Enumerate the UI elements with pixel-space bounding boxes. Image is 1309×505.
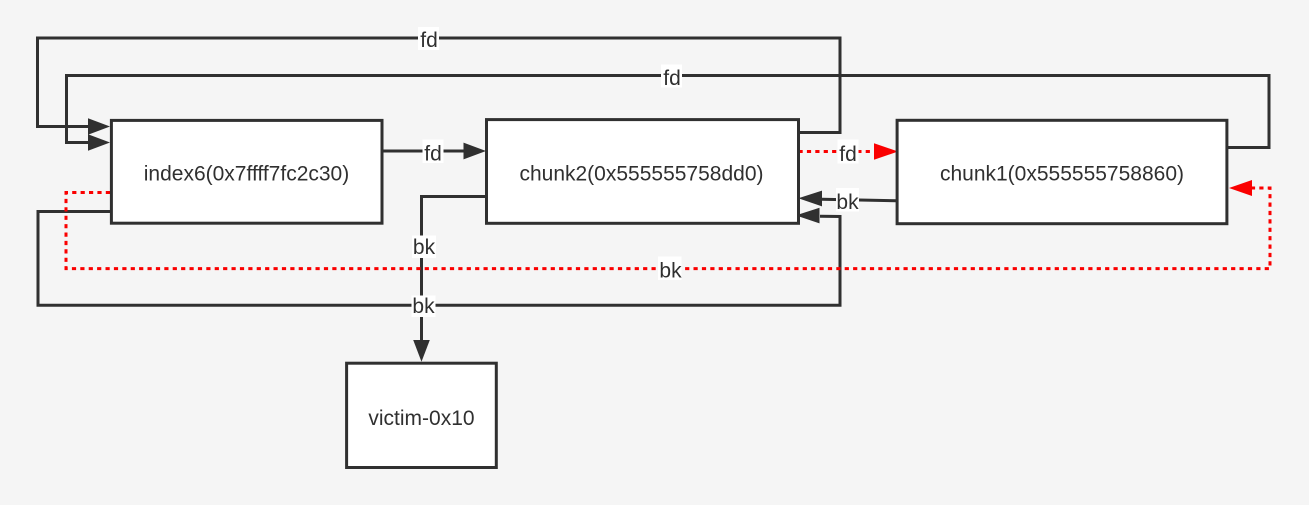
svg-text:fd: fd xyxy=(420,29,438,52)
arrowhead into victim top xyxy=(413,340,430,362)
box chunk2 xyxy=(487,120,799,224)
red arrowhead into chunk1 at y=151.5 xyxy=(874,143,898,160)
svg-text:bk: bk xyxy=(412,295,435,318)
label bk (index6->chunk1 red wire) xyxy=(658,257,682,281)
box victim xyxy=(347,363,497,467)
svg-text:index6(0x7ffff7fc2c30): index6(0x7ffff7fc2c30) xyxy=(144,163,349,186)
arrowhead into index6 at y=142.5 xyxy=(88,134,110,151)
red arrowhead into chunk1 right at y=188 xyxy=(1229,180,1252,196)
wire fd chunk2->index6 (top) xyxy=(38,38,841,133)
svg-text:bk: bk xyxy=(413,236,436,259)
wire fd chunk1->index6 (second) xyxy=(67,76,1270,148)
wire bk chunk1->chunk2 xyxy=(822,199,897,201)
label fd (chunk1->index6 wire) xyxy=(661,65,682,88)
wire bk index6->chunk2 (bottom loop) xyxy=(38,212,840,306)
label bk (chunk2->victim wire) xyxy=(412,236,436,259)
svg-text:chunk2(0x555555758dd0): chunk2(0x555555758dd0) xyxy=(519,163,763,186)
label fd (chunk2->index6 top wire) xyxy=(418,27,439,50)
arrowhead into index6 at y=126.5 xyxy=(88,118,110,135)
label fd (chunk2->chunk1 red wire) xyxy=(838,140,859,164)
wire bk chunk2->victim xyxy=(422,197,487,342)
box chunk1 xyxy=(897,120,1227,223)
svg-text:chunk1(0x555555758860): chunk1(0x555555758860) xyxy=(940,163,1184,186)
label fd (index6->chunk2 wire) xyxy=(423,140,444,164)
wire fd index6->chunk2 xyxy=(382,150,464,153)
svg-text:fd: fd xyxy=(663,67,681,90)
svg-text:victim-0x10: victim-0x10 xyxy=(368,407,474,430)
svg-text:fd: fd xyxy=(424,143,442,166)
label bk (chunk1->chunk2 wire) xyxy=(836,188,859,212)
arrowhead into chunk2 at y=216 xyxy=(796,208,820,224)
svg-text:bk: bk xyxy=(659,260,682,283)
wire bk index6->chunk1 (red dotted big loop) xyxy=(66,188,1270,269)
label bk (index6->chunk2 wire) xyxy=(412,296,436,318)
arrowhead into chunk2 at y=200 xyxy=(798,191,822,207)
svg-text:bk: bk xyxy=(836,191,859,214)
svg-text:fd: fd xyxy=(839,143,857,166)
wire fd chunk2->chunk1 (red dotted) xyxy=(799,150,876,153)
arrowhead into chunk2 at y=151 xyxy=(464,143,487,160)
box index6 xyxy=(111,120,382,223)
